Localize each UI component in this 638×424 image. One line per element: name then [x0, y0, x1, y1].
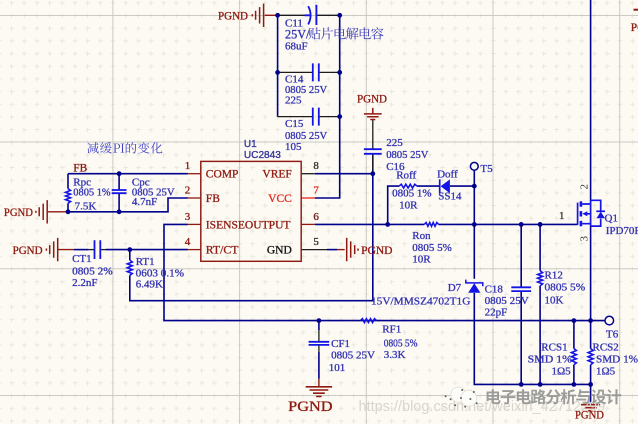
svg-text:7.5K: 7.5K [75, 200, 97, 212]
svg-text:1Ω5: 1Ω5 [552, 365, 572, 377]
svg-text:GND: GND [267, 245, 292, 257]
svg-text:SMD 1%: SMD 1% [596, 354, 638, 366]
svg-text:RT1: RT1 [136, 256, 155, 268]
svg-text:1: 1 [559, 210, 565, 222]
svg-text:D7: D7 [448, 282, 462, 294]
svg-text:8: 8 [313, 160, 319, 172]
svg-text:6: 6 [313, 211, 319, 223]
svg-text:2.2nF: 2.2nF [72, 277, 97, 289]
svg-text:0603 0.1%: 0603 0.1% [136, 267, 184, 279]
svg-text:Ron: Ron [412, 230, 431, 242]
svg-text:SS14: SS14 [438, 190, 462, 202]
svg-text:PGND: PGND [4, 207, 33, 219]
svg-text:FB: FB [206, 193, 220, 205]
svg-text:68uF: 68uF [285, 40, 308, 52]
svg-text:PGND: PGND [357, 94, 387, 106]
svg-text:PGND: PGND [13, 245, 43, 257]
svg-text:IPD70R: IPD70R [606, 225, 638, 237]
svg-text:COMP: COMP [206, 169, 239, 181]
svg-text:0805 1%: 0805 1% [73, 187, 110, 199]
svg-text:3: 3 [578, 236, 590, 242]
svg-text:VCC: VCC [268, 193, 292, 205]
svg-text:U1: U1 [244, 139, 257, 150]
svg-text:6.49K: 6.49K [136, 279, 163, 291]
svg-text:Q1: Q1 [605, 213, 618, 225]
svg-text:CT1: CT1 [72, 253, 92, 265]
svg-text:0805 5%: 0805 5% [384, 338, 418, 350]
svg-text:Doff: Doff [437, 169, 458, 181]
svg-text:105: 105 [285, 141, 302, 153]
svg-text:VREF: VREF [262, 169, 291, 181]
svg-text:RT/CT: RT/CT [206, 245, 239, 257]
svg-text:7: 7 [313, 185, 319, 197]
svg-text:T5: T5 [480, 163, 493, 175]
svg-text:PG: PG [631, 22, 638, 34]
svg-text:RCS2: RCS2 [593, 342, 619, 354]
svg-text:C18: C18 [485, 284, 504, 296]
svg-text:R12: R12 [545, 270, 563, 282]
svg-text:5: 5 [313, 236, 319, 248]
svg-text:0805 25V: 0805 25V [386, 149, 428, 161]
svg-text:CF1: CF1 [331, 338, 350, 350]
svg-text:RF1: RF1 [382, 324, 401, 336]
svg-text:0805 25V: 0805 25V [285, 130, 327, 142]
svg-text:10K: 10K [545, 295, 564, 307]
svg-text:3.3K: 3.3K [384, 349, 406, 361]
svg-text:UC2843: UC2843 [244, 150, 281, 161]
svg-text:0805 2%: 0805 2% [72, 266, 113, 278]
svg-text:10R: 10R [412, 253, 431, 265]
svg-text:1Ω5: 1Ω5 [596, 365, 616, 377]
svg-text:4: 4 [185, 236, 191, 248]
svg-text:0805 25V: 0805 25V [331, 350, 375, 362]
svg-text:0805 5%: 0805 5% [412, 242, 452, 254]
svg-text:0805 25V: 0805 25V [485, 295, 529, 307]
svg-text:1: 1 [185, 160, 191, 172]
svg-text:15V/MMSZ4702T1G: 15V/MMSZ4702T1G [371, 296, 470, 308]
svg-text:Roff: Roff [396, 170, 416, 182]
svg-text:PGND: PGND [218, 10, 248, 22]
svg-text:22pF: 22pF [485, 307, 508, 319]
svg-text:T6: T6 [606, 329, 619, 341]
svg-text:2: 2 [578, 184, 590, 190]
svg-text:2: 2 [185, 185, 191, 197]
svg-text:RCS1: RCS1 [541, 342, 567, 354]
svg-text:C15: C15 [285, 118, 304, 130]
svg-text:PGND: PGND [288, 399, 333, 415]
svg-text:ISENSEOUTPUT: ISENSEOUTPUT [206, 219, 291, 231]
svg-text:25V/: 25V/ [285, 27, 310, 41]
svg-text:225: 225 [386, 137, 403, 149]
svg-text:FB: FB [73, 163, 87, 175]
svg-text:10R: 10R [399, 200, 418, 212]
svg-text:3: 3 [185, 211, 191, 223]
svg-text:101: 101 [329, 362, 346, 374]
svg-text:225: 225 [285, 95, 302, 107]
svg-text:PGND: PGND [361, 245, 392, 257]
svg-text:SMD 1%: SMD 1% [528, 354, 572, 366]
svg-text:0805 1%: 0805 1% [392, 188, 432, 200]
svg-text:0805 5%: 0805 5% [545, 282, 586, 294]
svg-text:4.7nF: 4.7nF [132, 196, 157, 208]
